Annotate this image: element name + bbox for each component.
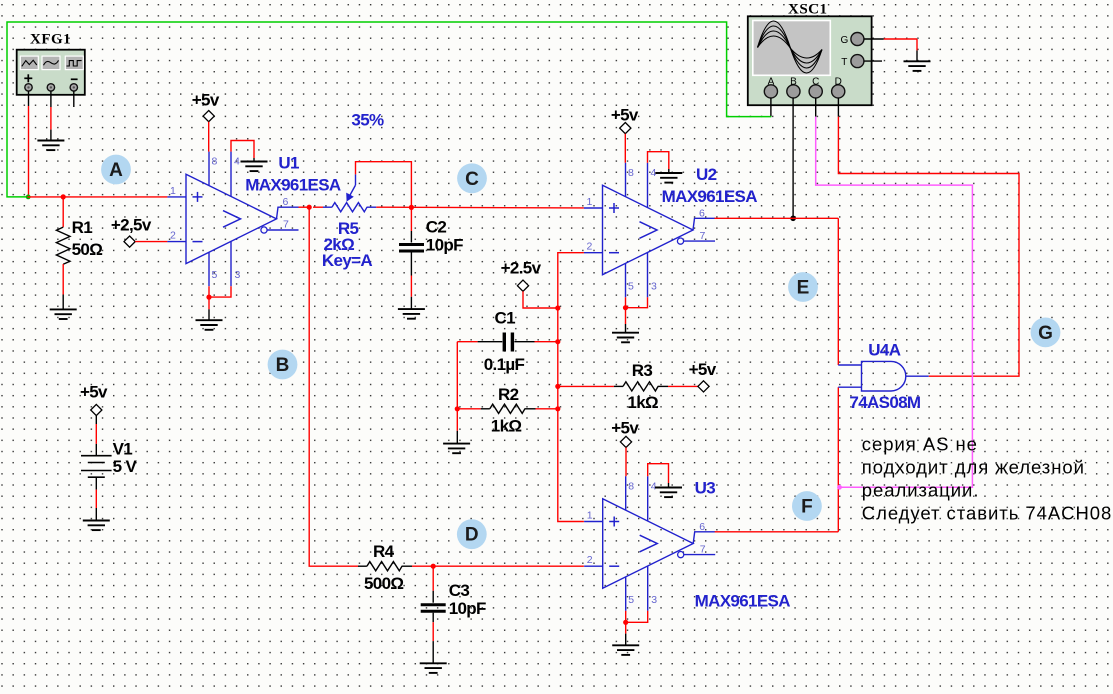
label C1: [484, 308, 525, 374]
svg-text:8: 8: [212, 156, 218, 168]
junction bus R2: [555, 406, 560, 411]
resistor R4: [367, 562, 402, 571]
node D: [457, 519, 487, 549]
wire C3 bottom lead: [432, 613, 434, 664]
junction net D at C3: [431, 564, 436, 569]
svg-text:3: 3: [651, 594, 657, 606]
wire XSC1 C stem: [815, 98, 817, 117]
power +2,5v U1: [111, 216, 152, 248]
wire net C: [376, 206, 584, 209]
wire R4 left lead: [358, 565, 367, 567]
svg-text:XFG1: XFG1: [30, 32, 71, 48]
label C3: [449, 581, 486, 618]
wire XFG1 + lead: [28, 91, 30, 197]
AND gate U4A: [838, 361, 929, 391]
power +5v U1: [192, 91, 220, 122]
wire U3 pin4 to ground: [648, 464, 669, 488]
junction net B: [307, 205, 312, 210]
wire XSC1 B stem: [792, 98, 794, 218]
svg-text:50Ω: 50Ω: [72, 240, 103, 259]
ground V1: [83, 521, 110, 531]
label R2: [491, 385, 522, 435]
wire C1 left lead: [457, 341, 502, 343]
power +2.5v mid: [501, 259, 542, 292]
node C: [457, 163, 487, 193]
wire XFG1 - stub: [73, 91, 75, 107]
svg-text:6: 6: [699, 521, 705, 533]
svg-text:+5v: +5v: [80, 383, 108, 402]
node E: [788, 272, 818, 302]
capacitor C3: [421, 605, 446, 612]
label U2: [662, 165, 758, 206]
svg-text:3: 3: [651, 280, 657, 292]
wire +2,5v to U1 pin2: [135, 241, 167, 243]
junction R2 left: [455, 406, 460, 411]
junction U3 pin5: [623, 620, 628, 625]
ground C2: [398, 309, 425, 319]
svg-text:R4: R4: [373, 542, 395, 561]
ground U1 pin4: [241, 162, 268, 172]
wire C1 right lead: [514, 341, 557, 343]
ground U2 pin4: [655, 173, 682, 183]
svg-text:V1: V1: [113, 440, 133, 459]
wire C2 bottom lead: [410, 253, 412, 310]
svg-text:7: 7: [283, 219, 289, 231]
wire R2 to ground: [456, 409, 458, 444]
svg-text:+2,5v: +2,5v: [111, 216, 152, 235]
wire XSC1 C probe magenta: [816, 117, 973, 488]
wire XSC1 A stem: [770, 98, 772, 117]
ground U3 pins 5,3: [612, 645, 639, 655]
capacitor C2: [399, 245, 424, 252]
junction bus +2.5v: [555, 305, 560, 310]
svg-text:7: 7: [700, 230, 706, 242]
svg-text:MAX961ESA: MAX961ESA: [662, 187, 758, 206]
label U1: [245, 153, 341, 194]
svg-text:0.1µF: 0.1µF: [484, 355, 525, 374]
svg-text:U3: U3: [695, 478, 716, 497]
svg-text:7: 7: [700, 543, 706, 555]
power +5v V1: [80, 383, 108, 416]
ground XFG1: [37, 141, 64, 151]
node B: [268, 350, 298, 380]
wire XSC1 G to ground: [864, 39, 917, 61]
wire C3 top lead: [432, 566, 434, 603]
svg-text:Следует ставить 74ACH08: Следует ставить 74ACH08: [862, 503, 1112, 524]
svg-text:E: E: [797, 278, 810, 299]
wire R4 right lead: [402, 565, 584, 567]
capacitor C1: [504, 333, 512, 352]
svg-text:+5v: +5v: [689, 360, 717, 379]
label 35%: [351, 111, 384, 130]
svg-text:A: A: [768, 76, 775, 87]
svg-text:реализации.: реализации.: [862, 480, 980, 501]
svg-text:R1: R1: [72, 218, 93, 237]
wire net A red: [27, 196, 167, 198]
wire net A green: [7, 22, 771, 197]
svg-text:C: C: [465, 169, 479, 190]
svg-text:5: 5: [628, 280, 634, 292]
svg-text:подходит для железной: подходит для железной: [862, 457, 1085, 478]
wire U1 pins 5,3 to ground: [209, 286, 231, 320]
svg-text:1kΩ: 1kΩ: [491, 416, 522, 435]
svg-text:8: 8: [628, 167, 634, 179]
svg-text:2: 2: [587, 554, 593, 566]
wire XSC1 T stub: [864, 60, 882, 62]
R5 wiper arrow: [346, 174, 355, 201]
svg-text:74AS08M: 74AS08M: [849, 393, 921, 412]
label U3: [695, 478, 791, 610]
op-amp U1 (comparator MAX961ESA): [167, 152, 298, 287]
svg-text:+5v: +5v: [611, 419, 639, 438]
svg-text:2: 2: [587, 241, 593, 253]
wire +5v to U2 pin8: [624, 134, 626, 163]
wire R1 bottom lead: [62, 264, 64, 309]
power +5v U3: [611, 419, 639, 448]
label XSC1: [788, 2, 828, 18]
junction net C at C2: [409, 205, 414, 210]
junction bus R3: [555, 384, 560, 389]
svg-text:5: 5: [212, 269, 218, 281]
label XFG1: [30, 32, 71, 48]
svg-text:6: 6: [283, 196, 289, 208]
svg-text:1kΩ: 1kΩ: [627, 393, 658, 412]
svg-text:серия AS не: серия AS не: [862, 434, 978, 455]
svg-text:C2: C2: [426, 218, 447, 237]
svg-text:C: C: [812, 76, 819, 87]
svg-text:2: 2: [170, 230, 176, 242]
junction net A at XFG1: [26, 195, 31, 200]
svg-text:3: 3: [235, 269, 241, 281]
svg-text:MAX961ESA: MAX961ESA: [695, 592, 791, 611]
wire R3 left lead: [558, 385, 623, 387]
svg-text:U2: U2: [696, 165, 717, 184]
svg-text:A: A: [109, 160, 123, 181]
svg-text:1: 1: [587, 196, 593, 208]
wire C2 top lead: [410, 207, 412, 242]
wire +5v to U1 pin8: [208, 122, 210, 152]
wire V1 top lead: [95, 416, 97, 456]
ground U1 pins 5,3: [196, 320, 223, 330]
svg-text:B: B: [790, 76, 797, 87]
ground U2 pins 5,3: [612, 333, 639, 343]
label U4A: [849, 340, 921, 412]
wire U2 pins 5,3 to ground: [626, 297, 648, 332]
op-amp U2 (comparator MAX961ESA): [584, 163, 715, 298]
svg-text:T: T: [841, 57, 847, 68]
potentiometer R5: [332, 203, 376, 212]
ground C3: [420, 663, 447, 673]
wire U2 pin4 to ground: [648, 152, 669, 173]
power +5v U2: [611, 106, 639, 134]
svg-text:4: 4: [651, 480, 657, 492]
svg-text:XSC1: XSC1: [788, 2, 828, 18]
wire net B (U1 out to R4): [299, 207, 359, 566]
svg-text:G: G: [841, 35, 849, 46]
svg-text:4: 4: [234, 156, 240, 168]
wire C1 to R2: [456, 342, 458, 409]
svg-text:B: B: [276, 355, 290, 376]
svg-text:D: D: [835, 76, 842, 87]
svg-text:C3: C3: [449, 581, 470, 600]
wire U3 pins 5,3 to ground: [626, 611, 648, 646]
wire R5 left lead: [313, 206, 332, 208]
svg-text:500Ω: 500Ω: [364, 574, 403, 593]
label R5: [322, 219, 373, 270]
label C2: [426, 218, 463, 255]
ground U3 pin4: [655, 488, 682, 498]
node F: [792, 491, 822, 521]
ground R1: [50, 309, 77, 319]
wire net F (U3 out to U4A): [715, 387, 839, 532]
resistor R3: [623, 382, 658, 391]
function generator XFG1: [17, 50, 85, 95]
svg-text:G: G: [1038, 323, 1053, 344]
ground R2: [443, 444, 470, 454]
note text (Russian): [862, 434, 1112, 524]
junction U1 pin5: [206, 295, 211, 300]
junction bus C1: [555, 339, 560, 344]
junction B on net E: [790, 216, 796, 222]
wire +2.5v to bus: [523, 291, 558, 308]
wire net E (U2 out to U4A): [715, 218, 839, 365]
node A: [101, 155, 131, 185]
op-amp U3 (comparator MAX961ESA): [584, 476, 715, 611]
svg-text:10pF: 10pF: [449, 599, 486, 618]
svg-text:8: 8: [628, 480, 634, 492]
junction net A at R1: [61, 194, 66, 199]
wire net G (U4A out to XSC1 D): [838, 117, 1019, 377]
svg-text:+2.5v: +2.5v: [501, 259, 542, 278]
wire XFG1 common lead: [50, 91, 52, 141]
wire R2 right lead: [525, 408, 558, 410]
svg-text:6: 6: [699, 207, 705, 219]
svg-text:C1: C1: [495, 308, 516, 327]
label R3: [627, 361, 658, 412]
wire +5v to U3 pin8: [625, 448, 627, 477]
svg-text:MAX961ESA: MAX961ESA: [245, 176, 341, 195]
svg-text:D: D: [465, 525, 479, 546]
svg-text:R2: R2: [498, 385, 519, 404]
svg-text:F: F: [801, 497, 813, 518]
wire net +2.5v bus: [558, 253, 584, 522]
junction magenta on net F: [837, 485, 842, 490]
wire R3 right lead: [658, 385, 698, 387]
ground XSC1 G: [904, 61, 931, 71]
svg-text:1: 1: [587, 510, 593, 522]
svg-text:1: 1: [170, 185, 176, 197]
wire V1 bottom lead: [95, 477, 97, 520]
oscilloscope XSC1: [748, 16, 872, 105]
wire XSC1 D stem: [837, 98, 839, 117]
label V1: [113, 440, 138, 476]
node G: [1031, 318, 1061, 348]
svg-text:R3: R3: [632, 361, 653, 380]
battery V1: [81, 456, 112, 478]
label R1: [72, 218, 103, 259]
svg-text:35%: 35%: [351, 111, 384, 130]
svg-text:U4A: U4A: [868, 340, 900, 359]
wire R5 wiper to output: [356, 162, 412, 208]
svg-text:U1: U1: [278, 153, 299, 172]
svg-text:5: 5: [628, 594, 634, 606]
svg-text:+5v: +5v: [611, 106, 639, 125]
svg-text:Key=A: Key=A: [322, 251, 373, 270]
svg-text:+5v: +5v: [192, 91, 220, 110]
svg-text:5 V: 5 V: [113, 457, 138, 476]
wire R2 left lead: [457, 408, 490, 410]
junction U2 pin5: [623, 305, 628, 310]
resistor R2: [490, 404, 525, 413]
svg-text:10pF: 10pF: [426, 235, 463, 254]
wire U1 pin4 to ground: [231, 141, 254, 162]
label R4: [364, 542, 403, 593]
resistor R1: [56, 227, 70, 264]
power +5v R3: [689, 360, 717, 392]
wire R1 top lead: [62, 197, 64, 227]
